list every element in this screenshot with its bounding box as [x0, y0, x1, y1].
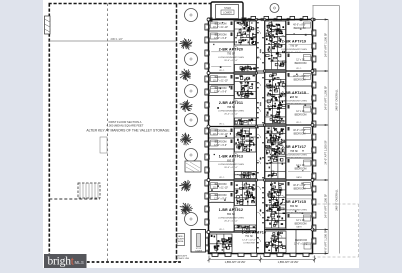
unit 2-BR APT#17: [257, 124, 315, 181]
dimension texts rotated: [324, 33, 339, 255]
unit 1-BR APT#13: [207, 125, 265, 180]
svg-text:BEDROOM: BEDROOM: [295, 240, 307, 242]
svg-text:750 SF: 750 SF: [245, 235, 254, 238]
svg-text:LIVING/DINING/KITCHEN: LIVING/DINING/KITCHEN: [218, 111, 244, 113]
svg-text:795 SF: 795 SF: [290, 150, 299, 153]
svg-text:W.I.C.: W.I.C.: [219, 177, 225, 179]
svg-text:STAIR: STAIR: [224, 7, 231, 10]
svg-text:26'-4" x 13'-0": 26'-4" x 13'-0": [287, 158, 301, 160]
svg-text:26'-4" x 13'-0": 26'-4" x 13'-0": [287, 104, 301, 106]
svg-text:24'-0" APT 1,200 SF: 24'-0" APT 1,200 SF: [324, 33, 328, 58]
svg-text:AREA: AREA: [178, 240, 184, 243]
svg-text:650 SF: 650 SF: [227, 159, 236, 162]
dimension line right inner: [327, 20, 329, 254]
corridor walls: [256, 20, 258, 254]
svg-text:FIRST FLOOR SECTION A: FIRST FLOOR SECTION A: [109, 120, 142, 124]
storage mezzanine line: [49, 40, 176, 42]
svg-text:W.I.C.: W.I.C.: [296, 68, 302, 70]
svg-text:LIVING RM: LIVING RM: [243, 243, 254, 245]
svg-text:26'-4" x 13'-0": 26'-4" x 13'-0": [224, 114, 238, 116]
svg-text:W.I.C.: W.I.C.: [219, 70, 225, 72]
svg-text:24'-0" APT 1,200 SF: 24'-0" APT 1,200 SF: [324, 194, 328, 219]
bottom-left tiny notes: [176, 255, 190, 261]
svg-text:795 SF: 795 SF: [227, 106, 236, 109]
svg-text:W.I.C.: W.I.C.: [219, 229, 225, 231]
svg-text:MLS: MLS: [75, 260, 84, 265]
svg-text:W.I.C.: W.I.C.: [219, 124, 225, 126]
entry stoop: [208, 2, 247, 22]
svg-text:1-BR APT#13: 1-BR APT#13: [219, 155, 243, 159]
svg-text:795 SF: 795 SF: [227, 52, 236, 55]
window bays right wall: [312, 30, 316, 244]
svg-text:bright: bright: [48, 256, 75, 268]
stair tower annex: [191, 230, 206, 253]
svg-text:1,886 APT 24'x50': 1,886 APT 24'x50': [225, 260, 246, 264]
svg-text:248'-0" OVERALL: 248'-0" OVERALL: [335, 89, 339, 111]
landscape area box: [177, 234, 185, 246]
entry tree top: [270, 4, 279, 13]
svg-text:2-BR APT#11: 2-BR APT#11: [219, 101, 243, 105]
corridor doors and marks: [257, 22, 264, 248]
svg-text:24'-0" APT 1,200 SF: 24'-0" APT 1,200 SF: [324, 140, 328, 165]
svg-text:26'-4" x 13'-0": 26'-4" x 13'-0": [224, 221, 238, 223]
svg-text:1-BR APT#12: 1-BR APT#12: [219, 208, 243, 212]
unit 2-BR APT#20: [207, 18, 265, 73]
window tick marks left/right walls: [207, 25, 315, 251]
walkway porch box: [185, 161, 201, 172]
svg-text:650 SF: 650 SF: [290, 205, 299, 208]
bright MLS watermark: [44, 254, 87, 268]
svg-text:SETBACK LINE: SETBACK LINE: [176, 257, 190, 260]
svg-text:BEDROOM: BEDROOM: [295, 223, 307, 225]
walkway trees: [179, 4, 279, 226]
svg-text:24'-0" APT 1,200 SF: 24'-0" APT 1,200 SF: [324, 86, 328, 111]
unit 1-BR APT#12: [207, 179, 265, 233]
svg-text:40'-0" x 8'-0": 40'-0" x 8'-0": [293, 25, 306, 27]
svg-text:40'-0" x 8'-0": 40'-0" x 8'-0": [293, 130, 306, 132]
svg-text:BATH: BATH: [296, 226, 302, 229]
svg-text:26'-4" x 13'-0": 26'-4" x 13'-0": [224, 167, 238, 169]
small box on partition line: [100, 137, 107, 153]
svg-text:BEDROOM: BEDROOM: [295, 168, 307, 170]
unit 2-BR APT#19: [257, 18, 315, 71]
svg-text:248'-0" OVERALL: 248'-0" OVERALL: [335, 189, 339, 211]
dimension extension lines: [313, 6, 340, 20]
svg-text:6,000 (MEAN) SQUARE FEET: 6,000 (MEAN) SQUARE FEET: [107, 124, 144, 128]
unit 1-BR APT#15: [257, 179, 315, 230]
unit 1-BR APT#14 (bottom): [207, 228, 314, 254]
svg-text:26'-4" x 13'-0": 26'-4" x 13'-0": [287, 213, 301, 215]
storage hall bottom wall (dashed): [49, 261, 183, 263]
wall detail box upper-left: [45, 16, 51, 34]
window bays top wall: [251, 17, 308, 20]
svg-text:BEDROOM: BEDROOM: [295, 63, 307, 65]
storage hall right wall (dashed): [176, 4, 178, 263]
svg-text:LIVING/DINING/KITCHEN: LIVING/DINING/KITCHEN: [281, 210, 307, 212]
window bays bottom wall: [212, 253, 309, 256]
svg-text:TOWER: TOWER: [195, 251, 203, 253]
column nodes on top wall: [248, 18, 316, 21]
svg-text:BEDROOM: BEDROOM: [295, 114, 307, 116]
building outer walls: [209, 20, 313, 254]
white drawing sheet: [43, 0, 359, 268]
title text block: [86, 120, 170, 133]
svg-text:LIVING/DINING/KITCHEN: LIVING/DINING/KITCHEN: [218, 164, 244, 166]
svg-text:ALTER KEY AT MANORS OF THE VAL: ALTER KEY AT MANORS OF THE VALLEY STORAG…: [86, 129, 170, 133]
dimension line right outer: [338, 6, 340, 254]
svg-text:LIVING/DINING/KITCHEN: LIVING/DINING/KITCHEN: [218, 218, 244, 220]
svg-text:LOWER: LOWER: [223, 12, 232, 15]
svg-text:LIVING/DINING/KITCHEN: LIVING/DINING/KITCHEN: [281, 49, 307, 51]
storage hall top wall (dashed): [49, 3, 212, 5]
bottom dimension line: [208, 256, 317, 263]
svg-text:40'-0" x 8'-0": 40'-0" x 8'-0": [293, 185, 306, 187]
svg-text:LIVING/DINING/KITCHEN: LIVING/DINING/KITCHEN: [218, 57, 244, 59]
svg-text:12'-6" x 22'-0": 12'-6" x 22'-0": [242, 239, 256, 241]
svg-text:206'-1 1/2": 206'-1 1/2": [111, 37, 123, 41]
svg-text:BATH: BATH: [296, 176, 302, 179]
unit 2-BR APT#18: [257, 70, 315, 126]
svg-text:W.I.C.: W.I.C.: [296, 122, 302, 124]
svg-text:650 SF: 650 SF: [227, 213, 236, 216]
storage interior dashed partition: [107, 4, 109, 263]
svg-text:2-BR APT#20: 2-BR APT#20: [219, 48, 243, 52]
svg-text:26'-4" x 13'-0": 26'-4" x 13'-0": [224, 60, 238, 62]
stair box lower-left: [49, 183, 100, 199]
unit 2-BR APT#11: [207, 72, 265, 127]
svg-text:1,886 APT 24'x50': 1,886 APT 24'x50': [278, 260, 299, 264]
svg-text:24'-0" APT 1,200 SF: 24'-0" APT 1,200 SF: [324, 230, 328, 255]
window bays left wall: [205, 24, 209, 251]
dimension arrows at unit dividers: [313, 19, 329, 255]
svg-text:795 SF: 795 SF: [290, 96, 299, 99]
storage hall left wall (dashed): [48, 4, 50, 263]
